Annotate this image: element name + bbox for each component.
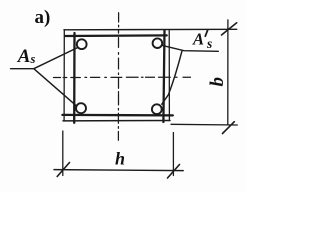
vertical centerline (dash-dot) [117,13,119,141]
dimension b bottom extension line [171,123,237,126]
column outline right edge [168,30,170,120]
leader line A_s to bottom-left rebar [34,69,76,106]
stirrup right side [163,30,164,122]
column outline top edge continuing as b-dimension top extension line [64,28,237,31]
svg-text:As: As [17,46,36,67]
rebar bottom-right [152,104,162,114]
leader line A's to bottom-right rebar [162,51,182,104]
leader line A_s to top-left rebar [34,48,77,69]
prime mark of A's [205,30,207,36]
dimension b bottom tick [223,122,235,134]
rebar top-right [153,38,163,48]
dimension h right extension line [172,133,174,176]
svg-text:b: b [207,77,228,87]
dimension h right tick [168,165,180,179]
dimension b line [227,20,229,125]
column outline left edge [63,30,65,121]
svg-text:h: h [115,149,125,169]
stirrup left side [73,33,76,123]
dimension h line [54,170,183,171]
column outline bottom edge [63,120,170,122]
stirrup top side [65,34,166,37]
rebar top-left [77,39,87,49]
dimension h left extension line [62,131,64,176]
stirrup bottom side [62,114,172,117]
dimension b top tick [222,23,237,35]
leader line A's from top-right rebar with underline tail [162,45,218,51]
svg-text:a): a) [35,7,51,28]
leader line A_s horizontal tail [11,68,34,70]
rebar bottom-left [76,103,86,113]
svg-text:As: As [192,30,212,52]
horizontal centerline (dash-dot) [54,76,191,78]
dimension h left tick [57,163,69,177]
